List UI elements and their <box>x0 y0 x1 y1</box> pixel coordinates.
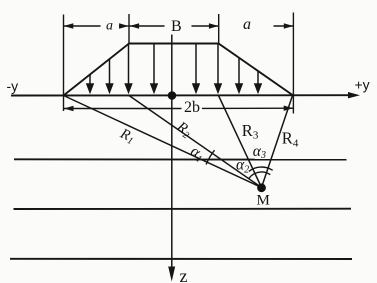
label R1 <box>116 125 137 147</box>
load arrow at y=196 <box>192 44 200 95</box>
ray R2 line <box>129 96 262 188</box>
angle alpha2 inner arc <box>249 172 271 179</box>
right a dim arrowhead <box>284 23 294 28</box>
ray R1 line <box>64 96 262 188</box>
load arrow at y=258 <box>254 71 262 95</box>
dimension tick at left toe <box>63 15 65 112</box>
svg-text:-y: -y <box>7 78 19 94</box>
load arrow at y=128.5 <box>124 44 132 94</box>
soil layer line 3 <box>10 258 352 260</box>
svg-text:2b: 2b <box>184 99 200 116</box>
y axis line <box>11 94 350 96</box>
origin dot <box>168 91 177 100</box>
y axis arrowhead <box>348 92 360 98</box>
svg-text:B: B <box>171 18 182 35</box>
svg-text:z: z <box>180 266 188 283</box>
load arrow at y=239 <box>235 58 243 95</box>
left a dim right arrowhead <box>119 23 129 28</box>
angle alpha3 outer arc <box>249 167 273 171</box>
svg-text:+y: +y <box>355 77 370 93</box>
angle alpha1 arc <box>206 150 214 164</box>
dimension line B left segment <box>129 25 164 27</box>
2b dimension line left segment <box>64 108 182 110</box>
svg-text:a: a <box>243 16 251 33</box>
B dim right arrowhead <box>209 23 219 28</box>
2b dim right arrowhead <box>284 106 294 111</box>
2b dim left arrowhead <box>64 106 74 111</box>
soil layer line 1 <box>14 158 347 160</box>
point M dot <box>257 183 266 192</box>
z axis arrowhead <box>168 267 175 282</box>
dimension tick at top-left corner <box>128 14 130 44</box>
ray R4 line <box>262 96 293 188</box>
dimension line B right segment <box>192 25 219 27</box>
label alpha1 <box>187 142 208 165</box>
load arrow at y=154 <box>150 44 158 95</box>
load arrow at y=90 <box>86 74 94 94</box>
trapezoid load outline <box>64 44 293 96</box>
svg-text:M: M <box>257 193 270 209</box>
central z axis line <box>171 35 173 268</box>
ray R3 line <box>219 96 262 188</box>
left a dim right segment <box>119 25 129 27</box>
svg-text:a: a <box>106 19 113 34</box>
load arrow at y=109.5 <box>105 59 113 95</box>
dimension line left a segment <box>64 25 101 27</box>
dimension tick at top-right corner <box>218 14 220 44</box>
soil layer line 2 <box>14 208 352 210</box>
dimension tick at right toe <box>292 13 294 114</box>
2b dimension line right segment <box>202 107 293 109</box>
B dim left arrowhead <box>130 23 140 28</box>
right a dim segment <box>274 25 294 27</box>
left a dim left arrowhead <box>64 23 74 28</box>
label R2 <box>172 118 194 141</box>
load arrow at y=218 <box>214 44 222 95</box>
